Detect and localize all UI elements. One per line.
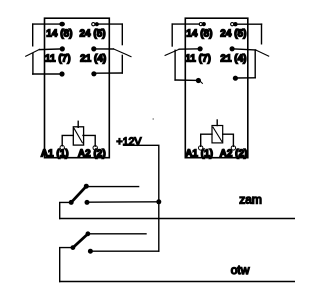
svg-text:21 (4): 21 (4) — [220, 53, 246, 64]
K1 pin 24 terminal ring — [92, 23, 95, 26]
K2 common right terminal — [233, 76, 238, 81]
switch S2 blade — [73, 234, 88, 248]
S1 lower fixed wire — [87, 201, 159, 203]
S1 pivot wire — [60, 202, 71, 218]
zam line — [60, 218, 295, 220]
K1 common right wire — [94, 72, 122, 74]
K2 terminal A2 — [231, 146, 235, 150]
K2 pin 14 terminal — [202, 22, 206, 26]
svg-text:zam: zam — [239, 193, 262, 207]
S2 pivot wire — [60, 248, 73, 282]
K1 terminal A2 — [93, 146, 97, 150]
S2 lower fixed wire — [90, 250, 158, 252]
svg-text:24 (5): 24 (5) — [80, 29, 106, 40]
svg-text:A2 (2): A2 (2) — [220, 148, 248, 159]
K1 right loop lower — [121, 55, 123, 73]
stray speck — [153, 118, 154, 119]
K1 contact 21 blade — [113, 49, 131, 57]
K2 pin 11 terminal — [198, 46, 203, 51]
otw line — [60, 281, 295, 283]
svg-text:A2 (2): A2 (2) — [78, 148, 106, 159]
K1 coil — [73, 127, 83, 145]
K1 coil wire right — [83, 135, 95, 146]
switch S1 blade — [71, 186, 86, 202]
K2 common left terminal — [196, 78, 201, 83]
K2 pin 14 wire — [172, 23, 199, 25]
K2 contact 11 wire — [179, 48, 200, 50]
S2 pivot dot — [71, 245, 76, 250]
S1 lower fixed terminal — [85, 200, 90, 205]
K1 contact 11 blade — [26, 49, 40, 56]
relay K2 body — [185, 18, 248, 158]
K2 common right wire — [235, 77, 255, 79]
svg-text:21 (4): 21 (4) — [80, 53, 106, 64]
K1 pin 11 terminal — [60, 46, 65, 51]
K2 coil wire right — [223, 134, 234, 146]
K2 pin 14 terminal ring — [199, 23, 202, 26]
K2 pin 24 wire — [235, 23, 261, 25]
K2 coil — [212, 126, 223, 143]
svg-text:11 (7): 11 (7) — [45, 53, 71, 64]
K1 pin 14 wire — [33, 23, 62, 25]
K1 pin 24 terminal — [95, 22, 99, 26]
S2 blade contact dot — [86, 231, 91, 236]
K2 common left terminal tick — [201, 82, 203, 84]
K1 coil wire left — [62, 135, 73, 145]
S1 blade contact dot — [84, 184, 89, 189]
+12V wire — [124, 145, 159, 251]
K1 common left wire — [33, 73, 62, 75]
K2 contact 21 wire — [232, 49, 256, 50]
K2 terminal A1 — [199, 146, 203, 150]
S1 pivot dot — [69, 200, 74, 205]
K2 right loop upper — [261, 24, 263, 44]
S2 lower fixed terminal — [88, 249, 93, 254]
K2 contact 11 blade — [165, 49, 179, 55]
svg-text:14 (8): 14 (8) — [186, 29, 212, 40]
K1 pin 14 terminal — [59, 22, 65, 27]
svg-text:otw: otw — [231, 263, 250, 277]
K1 common right terminal — [91, 71, 96, 76]
svg-text:24 (5): 24 (5) — [220, 29, 246, 40]
K1 right loop upper — [121, 24, 123, 44]
K1 coil diagonal — [74, 128, 82, 142]
svg-text:14 (8): 14 (8) — [46, 29, 72, 40]
K1 coil stub — [77, 121, 79, 127]
K2 contact 21 blade — [256, 50, 269, 56]
svg-text:A1 (1): A1 (1) — [41, 148, 69, 159]
S2 upper fixed wire — [88, 233, 146, 235]
K2 coil stub — [216, 120, 218, 126]
K1 terminal A1 — [60, 145, 64, 149]
K1 left loop upper — [32, 24, 34, 46]
K2 left loop lower — [174, 50, 176, 80]
K2 right loop lower — [254, 50, 256, 78]
K2 coil diagonal — [213, 127, 222, 141]
K2 pin 24 terminal — [233, 22, 237, 26]
svg-text:A1 (1): A1 (1) — [185, 148, 213, 159]
K1 contact 21 wire — [94, 48, 114, 50]
relay K1 body — [45, 18, 110, 158]
junction +12V / S1 — [156, 199, 161, 204]
K1 pin 24 wire — [97, 23, 123, 25]
K2 coil wire left — [201, 134, 212, 146]
K1 contact 11 wire — [40, 48, 63, 51]
K1 pin 21 terminal — [91, 46, 96, 51]
K2 common left wire — [175, 79, 198, 81]
K2 pin 24 terminal ring — [231, 23, 234, 26]
K2 left loop upper — [171, 24, 173, 46]
S1 upper fixed wire — [86, 186, 138, 188]
K2 pin 21 terminal — [230, 46, 235, 51]
K1 left loop lower — [32, 53, 34, 74]
K1 common left terminal — [59, 71, 64, 76]
svg-text:11 (7): 11 (7) — [185, 53, 211, 64]
